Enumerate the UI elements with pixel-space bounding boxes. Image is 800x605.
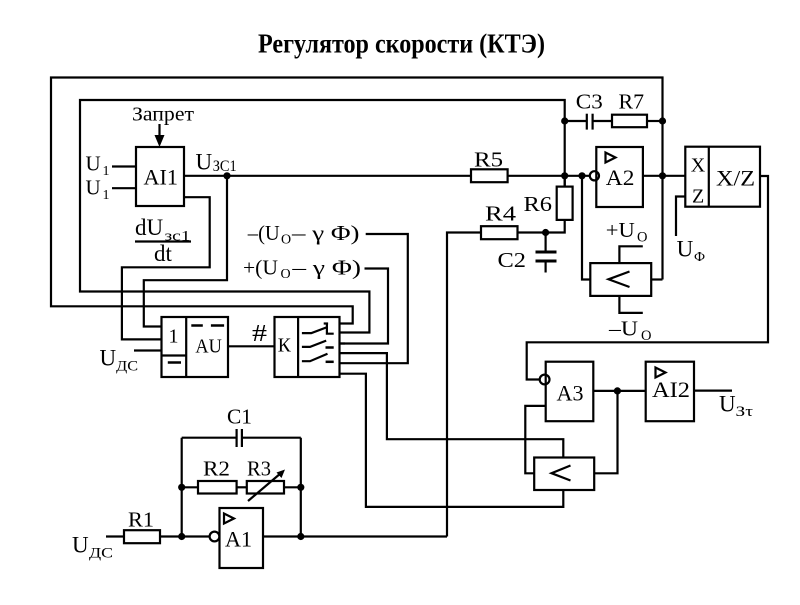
- svg-text:U: U: [72, 533, 89, 558]
- wire inner feedback top: [80, 100, 565, 333]
- svg-text:AI1: AI1: [144, 165, 179, 190]
- resistor R6: [524, 187, 573, 220]
- wire Udc to AU: [134, 349, 162, 351]
- wire AU to K: [228, 345, 275, 347]
- svg-text:U: U: [677, 237, 694, 262]
- svg-text:AU: AU: [195, 336, 222, 358]
- resistor R7: [612, 90, 647, 128]
- svg-text:R6: R6: [524, 192, 553, 216]
- svg-text:#: #: [252, 321, 267, 347]
- node C3/R7 right junction: [659, 117, 666, 124]
- wire K row3 out (stub): [340, 342, 346, 344]
- svg-text:Зτ: Зτ: [736, 404, 754, 420]
- svg-text:U: U: [86, 176, 101, 200]
- wire K row4 to lower comparator top: [340, 353, 564, 457]
- wire C1 row right: [242, 437, 301, 439]
- resistor R1: [124, 530, 160, 543]
- wire K row6 to lower comparator bottom: [340, 374, 564, 507]
- svg-text:dU: dU: [135, 215, 164, 240]
- node A3 output junction: [614, 387, 621, 394]
- block AI1: [136, 147, 184, 206]
- svg-text:– γ Φ): – γ Φ): [291, 256, 361, 280]
- wire +(Uo) to K row3: [340, 269, 389, 344]
- wire U1 a: [112, 165, 136, 167]
- arrow Запрет into AI1: [155, 124, 165, 147]
- wire C1 branch left vertical: [181, 438, 183, 537]
- switch contact 2: [302, 341, 334, 348]
- fraction dU3c1/dt: [135, 215, 191, 266]
- node A2 input junction: [578, 172, 585, 179]
- svg-text:1: 1: [103, 164, 110, 179]
- svg-text:К: К: [278, 335, 292, 356]
- svg-text:Ф: Ф: [694, 250, 705, 265]
- inversion circle A3 input: [540, 375, 550, 385]
- svg-text:A1: A1: [225, 527, 252, 552]
- wire Z input stub: [676, 197, 685, 237]
- svg-text:U: U: [100, 346, 117, 371]
- svg-text:Регулятор скорости (КТЭ): Регулятор скорости (КТЭ): [258, 29, 545, 59]
- svg-text:R2: R2: [203, 457, 230, 481]
- block A2: [596, 147, 643, 207]
- svg-text:+U: +U: [606, 218, 635, 242]
- comparator lower: [534, 458, 594, 491]
- wire -(Uo) to K row5: [340, 234, 408, 363]
- svg-text:О: О: [637, 230, 647, 246]
- wire R3 row right stub: [284, 486, 301, 488]
- block A3: [546, 362, 594, 422]
- wire AI1 output row to R5: [184, 175, 471, 177]
- svg-text:A3: A3: [557, 381, 584, 406]
- resistor R5: [471, 148, 508, 183]
- wire X/Z output feedback to A3: [527, 176, 768, 380]
- block AI2: [646, 362, 694, 422]
- svg-text:X: X: [691, 155, 706, 177]
- wire U3C1 node down to AU input 1: [144, 176, 227, 327]
- node R4/R6/C2: [542, 229, 549, 236]
- wire A3 second input from lower comparator: [525, 406, 545, 473]
- inversion circle A2 input: [590, 171, 599, 180]
- comparator upper: [590, 263, 651, 296]
- node A1 input: [178, 533, 185, 540]
- svg-text:R5: R5: [474, 148, 503, 172]
- block A1: [220, 508, 264, 568]
- wire A1 output: [263, 535, 447, 537]
- svg-text:ДС: ДС: [116, 359, 138, 375]
- wire C1 row left: [182, 437, 237, 439]
- wire AI1 second output to AU input 2: [122, 197, 210, 339]
- block AU: [162, 317, 229, 377]
- svg-text:Запрет: Запрет: [132, 104, 194, 126]
- wire A2 input node down to comparator: [582, 176, 590, 280]
- node U3C1 junction: [223, 172, 230, 179]
- wire R7 to junction: [647, 120, 663, 122]
- svg-text:X/Z: X/Z: [716, 166, 755, 191]
- vertical x564.7 R5 to R6: [564, 176, 566, 187]
- wire Udc to R1: [106, 535, 124, 537]
- wire A3 out to AI2: [593, 390, 645, 392]
- svg-text:– γ Φ): – γ Φ): [291, 221, 360, 245]
- wire C3 row: [565, 120, 587, 122]
- block X/Z: [685, 147, 760, 208]
- svg-text:1: 1: [169, 326, 179, 348]
- resistor R4: [481, 226, 518, 239]
- node C3 left junction: [561, 117, 568, 124]
- wire A1 feedback up to R4: [447, 233, 481, 537]
- wire AI2 output: [694, 390, 732, 392]
- svg-text:ДС: ДС: [89, 546, 113, 562]
- svg-text:–(U: –(U: [247, 221, 280, 245]
- wire -Uo stub: [619, 296, 642, 313]
- wire U1 b: [112, 187, 136, 189]
- capacitor C1: [237, 429, 242, 447]
- wire lower comparator out up to A3 node: [594, 391, 617, 473]
- node R2 row left: [178, 484, 185, 491]
- wire R4 to node: [518, 231, 546, 233]
- wire +Uo stub: [619, 246, 642, 263]
- svg-text:AI2: AI2: [652, 377, 690, 402]
- capacitor C2: [498, 233, 557, 273]
- svg-text:R3: R3: [247, 457, 271, 481]
- node A2 output junction: [659, 172, 666, 179]
- svg-text:+(U: +(U: [243, 256, 278, 280]
- svg-text:О: О: [281, 267, 291, 282]
- svg-text:R1: R1: [128, 508, 154, 532]
- wire R2 row left stub: [182, 486, 198, 488]
- svg-text:A2: A2: [606, 165, 635, 190]
- svg-text:U: U: [196, 150, 213, 175]
- wire R5 to A2: [508, 175, 590, 177]
- switch contact 3: [302, 354, 334, 362]
- inversion circle A1 input: [210, 532, 220, 542]
- svg-text:Z: Z: [692, 186, 704, 208]
- wire R2 to R3: [237, 486, 247, 488]
- wire comparator out up to A2 output: [651, 278, 662, 280]
- resistor R3 with arrow: [247, 470, 285, 502]
- resistor R2: [198, 481, 237, 494]
- svg-text:C2: C2: [498, 248, 527, 272]
- svg-text:C1: C1: [227, 405, 252, 429]
- svg-text:dt: dt: [154, 241, 173, 266]
- svg-text:U: U: [719, 392, 736, 417]
- svg-text:R4: R4: [485, 202, 517, 226]
- capacitor C3: [576, 90, 603, 130]
- block K: [275, 317, 340, 377]
- wire C3 to R7: [593, 120, 612, 122]
- wire C1 branch right vertical: [300, 438, 302, 537]
- wire outer feedback top: [51, 78, 663, 324]
- svg-text:R7: R7: [619, 90, 645, 114]
- svg-text:1: 1: [103, 188, 110, 203]
- switch contact 1: [302, 324, 334, 334]
- wire R6 bottom elbow to R4 node: [546, 220, 565, 233]
- svg-text:U: U: [86, 152, 101, 176]
- svg-text:C3: C3: [576, 90, 603, 114]
- node R3 row right: [297, 484, 304, 491]
- svg-text:–U: –U: [608, 317, 638, 341]
- node A1 output junction: [297, 533, 304, 540]
- wire A2 out to X/Z: [643, 175, 685, 177]
- svg-text:ЗС1: ЗС1: [213, 158, 237, 175]
- node R5/R6 junction: [561, 172, 568, 179]
- svg-text:О: О: [281, 233, 291, 248]
- wire R1 to A1: [160, 535, 210, 537]
